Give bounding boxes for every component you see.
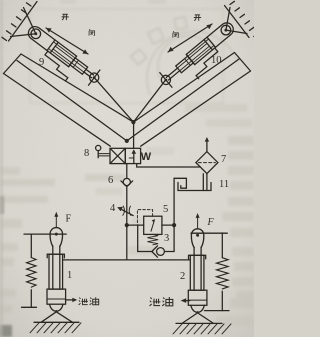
hanzi 闭 left [89, 29, 94, 35]
relief valve 5 body [144, 216, 162, 234]
check valve 6 [121, 178, 133, 186]
paper background [0, 0, 254, 337]
relief valve 5 spring [147, 234, 158, 244]
hanzi 闭 right [173, 31, 178, 37]
svg-text:3: 3 [164, 233, 169, 244]
open/close double arrow left [46, 28, 88, 54]
wall anchor left [2, 2, 37, 42]
svg-text:2: 2 [180, 271, 185, 282]
wire relief valve 5 to right branch [162, 224, 174, 226]
bypass wire with check valve 3 [138, 225, 174, 251]
svg-text:F: F [66, 214, 72, 225]
collar [47, 289, 66, 304]
svg-text:6: 6 [108, 175, 113, 186]
svg-text:8: 8 [84, 148, 89, 159]
barrel [190, 255, 204, 290]
hanzi 泄油 left [79, 297, 99, 305]
dark smudge bottom-left corner [0, 325, 12, 337]
taper base [191, 305, 205, 312]
taper base [50, 304, 64, 311]
pivot of cylinder 9 [31, 29, 41, 39]
svg-text:5: 5 [163, 204, 168, 215]
force arrow F [55, 217, 57, 228]
wall anchor right [225, 1, 259, 37]
valve 8 plunger actuator [96, 145, 110, 157]
gate leaf right [127, 53, 251, 147]
right branch wire [173, 178, 175, 251]
svg-text:W: W [141, 151, 152, 163]
cylinder 9 [18, 22, 104, 97]
hanzi 开 left [62, 14, 69, 20]
ground hatching [173, 324, 231, 334]
wire valve 8 to check valve 6 [126, 164, 128, 179]
junction node upper [131, 120, 135, 124]
drain arrow cylinder 2 [181, 298, 190, 303]
spring of cylinder 1 [22, 234, 67, 307]
collar [188, 290, 207, 305]
relief valve 5 pilot dashed line [137, 210, 152, 226]
wire junction to valve 8 [133, 122, 135, 148]
oil tank 11 [178, 174, 211, 191]
tank pipe from right branch [174, 178, 186, 188]
wire to relief valve 5 [127, 224, 144, 226]
spring of cylinder 2 [191, 233, 229, 311]
barrel [49, 254, 63, 289]
junction node lower (gate tips) [125, 139, 129, 143]
pivot of cylinder 10 [221, 25, 231, 35]
drain arrow cylinder 1 [66, 298, 78, 302]
junction node at relief branch [125, 223, 129, 227]
ball top [191, 229, 203, 248]
ground hatching [30, 323, 81, 333]
gate leaf left [4, 54, 134, 146]
hanzi 泄油 right [149, 297, 172, 306]
drain wire valve 8 to tank [137, 164, 201, 167]
air filter 7 [196, 137, 218, 174]
plunger rod [53, 246, 60, 289]
pipe from cylinder 9 to junction [94, 78, 133, 123]
ground pivot triangle [176, 313, 222, 324]
svg-text:4: 4 [110, 203, 116, 214]
svg-text:10: 10 [211, 55, 222, 66]
bleed-through ghost marks [30, 9, 238, 103]
pipe from cylinder 10 to junction [133, 80, 165, 122]
plunger rod [194, 247, 201, 290]
check valve 3 [152, 246, 165, 257]
force arrow F [197, 218, 199, 229]
svg-text:9: 9 [39, 57, 44, 68]
wire main line down to cylinders [126, 225, 128, 260]
open/close double arrow right [168, 24, 212, 52]
ground pivot triangle [34, 312, 79, 323]
svg-text:1: 1 [67, 270, 72, 281]
svg-text:7: 7 [221, 154, 226, 165]
svg-text:11: 11 [219, 179, 229, 190]
hanzi 开 right [194, 15, 201, 21]
ball top [50, 228, 62, 247]
cylinder 10 [156, 18, 244, 98]
distribution wire to both cylinders [63, 259, 191, 261]
valve 8 body [110, 148, 141, 163]
svg-text:F: F [207, 217, 215, 228]
junction node right branch [172, 223, 176, 227]
throttle valve 4 [117, 206, 133, 216]
wire check valve 6 to throttle 4 [126, 187, 128, 226]
